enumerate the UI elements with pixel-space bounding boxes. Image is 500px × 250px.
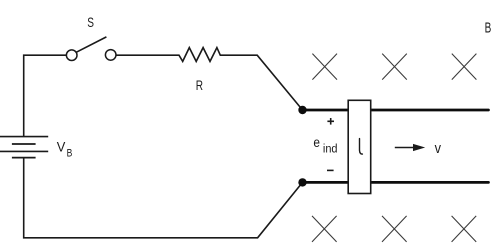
svg-text:ind: ind <box>323 143 338 155</box>
svg-text:v: v <box>435 140 442 156</box>
svg-text:V: V <box>57 139 66 155</box>
svg-text:B: B <box>67 148 73 160</box>
svg-text:R: R <box>196 77 203 93</box>
svg-text:e: e <box>313 134 320 150</box>
svg-text:S: S <box>87 15 94 31</box>
svg-text:B: B <box>485 20 492 36</box>
